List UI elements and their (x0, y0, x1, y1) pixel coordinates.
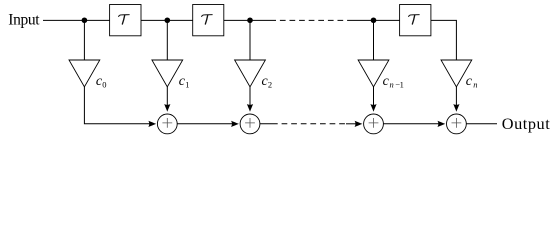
wire tap 1 vertical (166, 20, 168, 60)
arrowhead sum1 to sum2 (231, 121, 239, 127)
amplifier c0 (69, 60, 100, 87)
wire input to box T1 (43, 19, 110, 21)
wire c0 down and right to sum 1 (84, 87, 150, 124)
arrowhead sum3 to sum4 (438, 121, 446, 127)
amplifier c2 (235, 60, 266, 87)
amplifier cn (441, 60, 472, 87)
svg-text:0: 0 (102, 79, 106, 89)
arrowhead c1 into sum1 (164, 104, 170, 112)
wire sum3 to sum4 (384, 123, 440, 125)
wire sum2 to dashed bottom (260, 123, 278, 125)
svg-text:Output: Output (502, 114, 550, 133)
svg-text:n: n (473, 79, 477, 89)
wire tap n-1 vertical (373, 20, 375, 60)
delay block T1 (110, 5, 141, 36)
delay block T2 (193, 5, 224, 36)
svg-text:c: c (466, 74, 473, 89)
wire dashed to sum3 (346, 123, 357, 125)
node junction dot 2 (165, 17, 171, 23)
wire T2 to dashed (224, 19, 276, 21)
node junction dot 3 (247, 17, 253, 23)
label c2 (262, 74, 273, 90)
wire tap 0 vertical (83, 20, 85, 60)
label cn-1 (383, 74, 404, 90)
arrowhead c2 into sum2 (247, 104, 253, 112)
wire bottom dashed segment (278, 123, 346, 125)
summing node 2 (240, 114, 260, 134)
wire c2 to sum 2 (249, 87, 251, 105)
wire cn-1 to sum 3 (373, 87, 375, 105)
label c1 (179, 74, 190, 90)
label c0 (96, 74, 107, 90)
arrowhead c0 into sum1 (148, 121, 156, 127)
delay block T3 (400, 5, 431, 36)
wire top dashed segment (276, 19, 352, 21)
wire T3 to corner down to amp cn (431, 20, 456, 60)
wire dashed to box T3 (352, 19, 400, 21)
arrowhead dashed into sum3 (355, 121, 363, 127)
svg-text:2: 2 (268, 79, 272, 89)
wire tap 2 vertical (249, 20, 251, 60)
svg-text:−1: −1 (395, 79, 403, 89)
svg-text:1: 1 (185, 79, 189, 89)
wire T1 to T2 (141, 19, 193, 21)
summing node 4 (447, 114, 467, 134)
node junction dot 1 (82, 17, 88, 23)
svg-text:Input: Input (8, 11, 40, 28)
summing node 1 (157, 114, 177, 134)
wire sum1 to sum2 (177, 123, 233, 125)
wire cn to sum 4 (455, 87, 457, 105)
amplifier c1 (152, 60, 183, 87)
arrowhead cn-1 into sum3 (370, 104, 376, 112)
node junction dot 4 (371, 17, 377, 23)
summing node 3 (364, 114, 384, 134)
arrowhead cn into sum4 (453, 104, 459, 112)
amplifier cn-1 (358, 60, 389, 87)
svg-text:n: n (390, 79, 394, 89)
wire c1 to sum 1 (166, 87, 168, 105)
wire sum4 to output (466, 123, 497, 125)
label cn (466, 74, 478, 90)
